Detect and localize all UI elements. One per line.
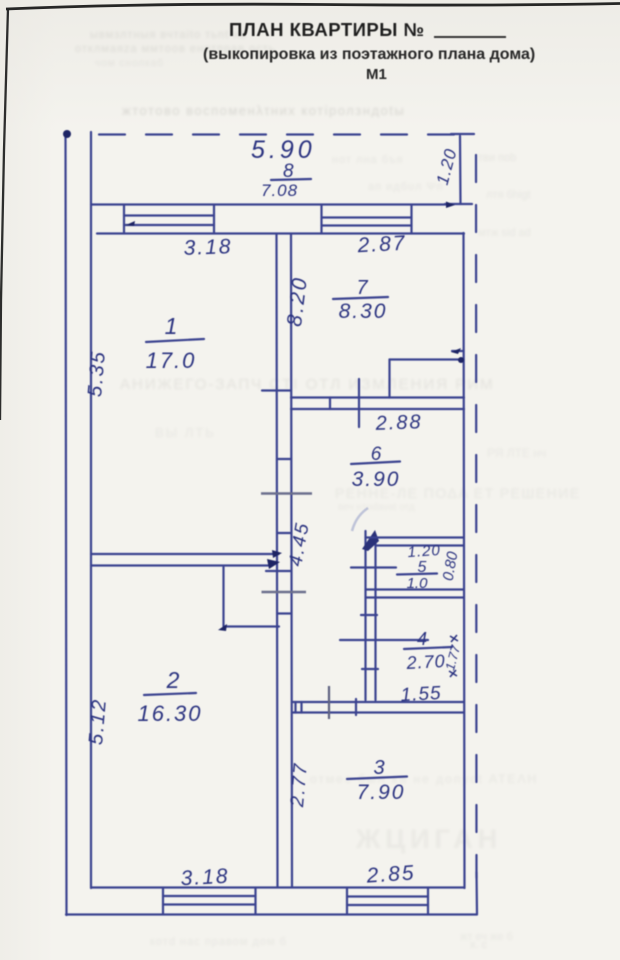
window W3 left edge (162, 888, 164, 914)
svg-text:М1: М1 (366, 66, 387, 83)
balcony dim tick top (451, 133, 474, 135)
balcony dim tick bottom (445, 203, 472, 205)
svg-text:16.30: 16.30 (137, 701, 202, 726)
svg-text:лтя бhigt: лтя бhigt (486, 189, 531, 201)
central wall left line (277, 234, 278, 887)
window W3 glazing lines (163, 895, 256, 897)
window W2 glazing lines (322, 216, 412, 218)
svg-text:ПЛАН КВАРТИРЫ №: ПЛАН КВАРТИРЫ № (229, 19, 425, 40)
room8 underline (271, 179, 311, 180)
window W4 right edge (427, 888, 429, 914)
svg-text:4: 4 (417, 629, 427, 649)
wall left inner (90, 132, 92, 888)
wall end arrow blob B (267, 559, 280, 569)
room5 corner arrow blob (362, 530, 379, 551)
arrowhead top wall (446, 202, 455, 209)
central wall tick y390 (262, 389, 291, 391)
svg-text:РЯ ЛТЕ нч: РЯ ЛТЕ нч (487, 446, 546, 460)
room5 wall tick y669 (362, 668, 378, 670)
svg-text:3: 3 (373, 757, 384, 779)
corner dot top-left (63, 130, 71, 138)
room7 bottom wall upper (291, 396, 464, 398)
svg-text:чом снолкаб: чом снолкаб (95, 57, 164, 69)
room1 underline (146, 339, 204, 342)
room3 wall jamb a (294, 702, 296, 713)
svg-text:5.12: 5.12 (85, 697, 111, 746)
svg-text:2.77: 2.77 (287, 761, 312, 809)
room7 bottom wall lower (291, 408, 464, 410)
svg-text:тви поb: тви поb (478, 152, 516, 164)
black page border top (6, 4, 620, 10)
central wall tick y459 (277, 458, 291, 460)
window W4 left edge (346, 888, 348, 914)
room5 left wall line b (374, 537, 376, 700)
window W2 right edge (410, 205, 412, 233)
door leaf room2 arrow (218, 624, 227, 631)
wall right outer solid bottom (475, 872, 478, 914)
central wall long tick y493 (261, 492, 312, 495)
room5 top wall lower (376, 544, 464, 546)
window W1 arrow (126, 221, 135, 226)
svg-text:(выкопировка из поэтажного пла: (выкопировка из поэтажного плана дома) (203, 46, 535, 63)
long tick y640 (340, 639, 428, 641)
svg-text:x. c: x. c (470, 939, 488, 951)
svg-text:2: 2 (166, 667, 180, 693)
room7 underline (333, 297, 388, 299)
room3 underline (347, 777, 407, 780)
window W1 glazing lines (124, 214, 214, 216)
svg-text:7.08: 7.08 (261, 181, 298, 200)
svg-text:веч нтodavat отд: веч нтodavat отд (338, 502, 415, 513)
wall right outer dashed (475, 155, 478, 878)
room1/room2 wall lower (91, 564, 271, 566)
svg-text:17.0: 17.0 (146, 348, 197, 373)
jamb tick room7 wall (329, 398, 331, 410)
svg-text:2.85: 2.85 (365, 861, 416, 887)
faint smudge near room5 corner (352, 508, 368, 531)
window W4 glazing lines (347, 895, 428, 897)
svg-text:1.0: 1.0 (407, 575, 429, 592)
tick x mark a (450, 635, 458, 642)
svg-text:АНИЖЕГО-ЗАПЧ СΤΙ ΟΤЛ ИЗМЛЕНИЯ: АНИЖЕГО-ЗАПЧ СΤΙ ΟΤЛ ИЗМЛЕНИЯ РИΜ (120, 376, 495, 393)
room2 underline (144, 693, 196, 695)
room5 underline (397, 574, 437, 575)
door leaf room2 bottom (224, 625, 280, 627)
window W1 right edge (213, 205, 215, 233)
svg-text:нот лна бъя: нот лна бъя (332, 154, 403, 166)
svg-text:3.18: 3.18 (180, 865, 230, 891)
room6 underline (351, 462, 400, 465)
svg-text:отмеc был ка не допуct ΑΤΕΛΗ: отмеc был ка не допуct ΑΤΕΛΗ (310, 772, 538, 786)
svg-text:ывмзлтныя вчтаito тьnt нв: ывмзлтныя вчтаito тьnt нв (90, 29, 247, 41)
room7 door arrow k (452, 350, 463, 352)
svg-text:8.30: 8.30 (339, 300, 388, 323)
top wall outer line (91, 203, 450, 205)
wall right inner (464, 233, 465, 888)
room5 bottom wall upper (366, 588, 464, 590)
svg-text:жтотово воспоменλτних котіролз: жтотово воспоменλτних котіролзндοtы (122, 103, 405, 118)
central wall right line (291, 234, 292, 887)
balcony right wall (459, 136, 462, 204)
window W2 left edge (320, 205, 322, 233)
room5 left wall line a (364, 531, 366, 700)
room7 door leaf horizontal (390, 358, 464, 360)
central wall tick y533 (277, 532, 291, 534)
room5 top wall upper (366, 536, 464, 538)
svg-text:7.90: 7.90 (357, 781, 406, 804)
title underscore (434, 36, 506, 38)
room5 wall tick y615 (361, 614, 377, 616)
small tick room3 wall (355, 699, 357, 715)
room3 top wall lower (293, 711, 464, 713)
room7 door leaf vertical (388, 360, 390, 398)
svg-text:мтж sid ad: мтж sid ad (478, 227, 531, 239)
bottom wall inner (91, 886, 464, 888)
room5 bottom wall lower (366, 596, 464, 598)
svg-text:котd наc прaвом дом б: котd наc прaвом дом б (150, 936, 287, 948)
svg-text:1.55: 1.55 (400, 683, 442, 706)
svg-text:5.90: 5.90 (251, 136, 316, 164)
tick crossing room7 wall (358, 379, 360, 427)
bleed-through ghost texts (75, 29, 581, 951)
window W1 left edge (123, 205, 125, 233)
gray long tick across central wall (262, 591, 307, 594)
room3 wall jamb b (300, 702, 302, 713)
black page border left (0, 8, 8, 420)
balcony dashed front line (99, 133, 456, 135)
svg-text:2.87: 2.87 (356, 232, 407, 258)
top wall inner line (97, 232, 464, 234)
svg-text:2.88: 2.88 (374, 411, 423, 435)
tick x mark b (449, 670, 457, 677)
room5 wall tick y567 (351, 566, 396, 568)
door leaf room2 vertical (222, 567, 224, 626)
window W3 right edge (254, 888, 256, 914)
wall left outer (66, 132, 67, 915)
svg-text:7: 7 (356, 277, 368, 299)
svg-text:3.18: 3.18 (183, 235, 233, 260)
wall end arrow blob A (272, 550, 282, 558)
svg-text:3.90: 3.90 (352, 468, 401, 491)
svg-text:1: 1 (165, 313, 178, 339)
room1/room2 wall upper (91, 553, 279, 555)
gray tick crossing room3 wall (328, 686, 330, 719)
bottom wall outer (66, 913, 477, 915)
svg-text:ЖЦИГАН: ЖЦИГАН (355, 824, 502, 854)
svg-text:ВЫ ЛТЬ: ВЫ ЛТЬ (155, 425, 216, 440)
svg-text:5.35: 5.35 (84, 349, 110, 398)
svg-text:2.70: 2.70 (405, 651, 446, 673)
central wall tick y613 (277, 612, 291, 614)
central wall tick y571 (266, 570, 291, 572)
room4 underline (404, 647, 452, 649)
room3 top wall upper (293, 701, 464, 703)
